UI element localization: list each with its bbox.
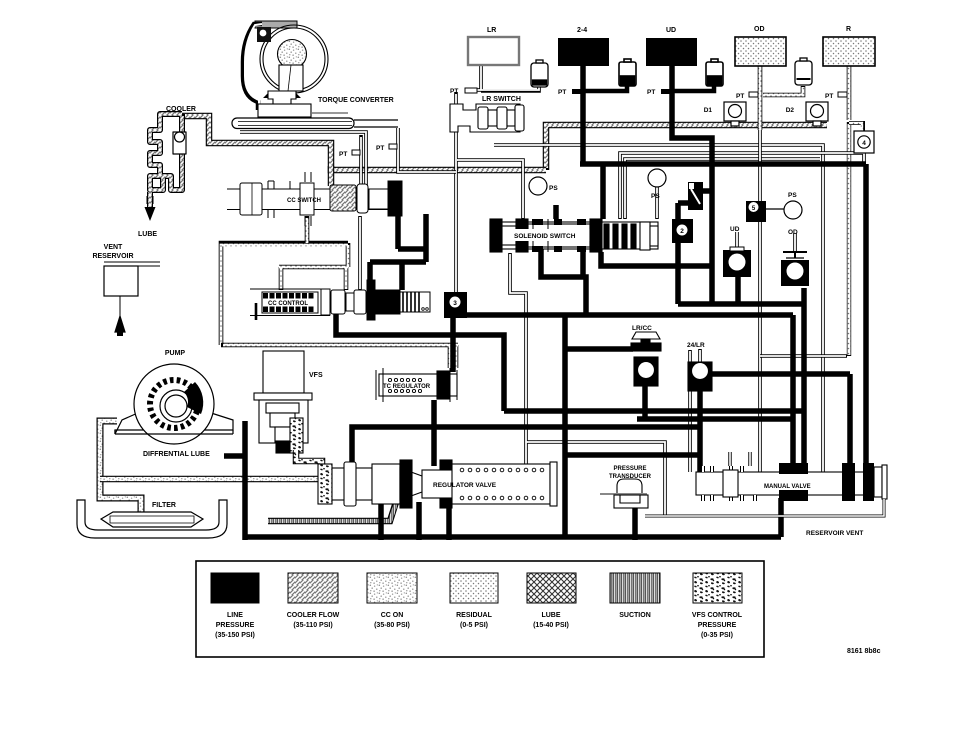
UD solenoid [646,38,697,66]
wire ball4 to x760 y356 [760,354,847,358]
R solenoid [823,37,875,66]
svg-text:TORQUE CONVERTER: TORQUE CONVERTER [318,97,394,104]
wire bottom main y537 [245,498,781,537]
svg-text:PRESSURE: PRESSURE [698,622,737,629]
legend lube [527,573,576,603]
wire suction filter to pump [100,421,141,513]
legend residual [450,573,498,603]
accumulator A1 [531,60,548,87]
wire mid line y315 [462,312,793,318]
svg-text:PRESSURE: PRESSURE [216,622,255,629]
wire transducer link [510,253,665,516]
svg-text:LR: LR [487,27,496,34]
svg-text:RESERVOIR: RESERVOIR [92,253,133,260]
svg-text:LUBE: LUBE [541,612,560,619]
svg-text:D1: D1 [704,107,713,114]
svg-text:PRESSURE: PRESSURE [613,466,646,472]
torque converter feed tube [232,118,354,129]
wire suction to regulator valve y521 [268,502,396,521]
wire tc pt drop x361 [359,135,363,186]
cooler [145,114,187,221]
svg-text:VFS CONTROL: VFS CONTROL [692,612,743,619]
solenoid switch valve [490,219,658,252]
OD solenoid [735,37,786,66]
wire lube dotted loop left [221,216,348,345]
VFS valve [254,351,322,474]
pump [115,364,233,444]
svg-text:CC CONTROL: CC CONTROL [268,301,308,307]
svg-text:RESERVOIR VENT: RESERVOIR VENT [806,530,863,537]
svg-text:PT: PT [450,88,458,95]
LRCC accumulator [631,332,661,386]
legend box [196,561,764,657]
svg-text:OD: OD [754,26,765,33]
2-4 solenoid [558,38,609,66]
svg-text:PT: PT [376,145,384,152]
svg-text:PS: PS [788,192,797,199]
accumulator A2 [619,59,636,86]
flag valve 1 [688,182,703,210]
wire residual y160 to PS1 and solenoid switch [457,160,523,219]
wire ball2 down [675,242,681,304]
svg-text:OD: OD [788,229,798,236]
LR solenoid [468,37,519,65]
wire solenoid switch bottom out [541,205,586,315]
svg-text:(0-5 PSI): (0-5 PSI) [460,622,488,629]
svg-text:R: R [846,26,851,33]
svg-text:UD: UD [730,226,740,233]
wire LR switch down to ball5 [454,92,458,294]
svg-text:VFS: VFS [309,372,323,379]
ball check 4 [849,123,874,153]
svg-text:2-4: 2-4 [577,27,587,34]
UD accumulator [723,247,751,277]
svg-text:LR SWITCH: LR SWITCH [482,96,521,103]
wire x793 down to manual valve [790,315,796,466]
wire x565 down [562,313,568,537]
wire TC regulator to regulator valve [434,400,437,466]
wire regulator valve bottom ports [381,502,449,540]
wire torque converter feed lower double y132 [240,132,366,186]
svg-text:UD: UD [666,27,676,34]
wire ball2 elbow [678,203,692,219]
svg-text:PT: PT [736,93,744,100]
wire transducer bottom [632,505,638,540]
wire manual valve gray x690 [688,350,692,472]
svg-text:LINE: LINE [227,612,243,619]
wire UD accumulator stem [735,232,739,252]
wire accumulator A2 elbow [583,84,627,91]
PS switch 2 [648,169,666,187]
svg-text:PS: PS [549,185,558,192]
CC switch valve [227,172,402,226]
wire 4-ball down textured [847,122,851,356]
svg-text:3: 3 [453,300,457,307]
wire residual long y143 [494,145,823,472]
legend line pressure [211,573,259,603]
svg-text:(35-110 PSI): (35-110 PSI) [293,622,332,629]
svg-text:PT: PT [339,151,347,158]
wire flag valve link [700,188,712,194]
wire y304 to OD accumulator drop [678,301,804,307]
wire PS2 stub [655,186,659,219]
wire pump right drop [242,421,248,540]
svg-text:COOLER FLOW: COOLER FLOW [287,612,340,619]
svg-text:DIFFRENTIAL LUBE: DIFFRENTIAL LUBE [143,451,210,458]
wire residual y172 [398,128,456,172]
svg-text:COOLER: COOLER [166,106,196,113]
svg-text:(35-150 PSI): (35-150 PSI) [215,632,255,639]
wire cc switch to cc control double x360 [358,216,362,290]
wire y455 to manual valve area [565,452,699,458]
wire LRCC feed y349 [565,346,633,352]
wire OD solenoid drop textured [758,66,763,130]
svg-text:CC SWITCH: CC SWITCH [287,198,321,204]
wire y411 long [504,408,804,414]
accumulator A3 [706,59,723,86]
wire y419 LRCC to x793 [637,416,793,422]
LR switch [450,104,524,132]
ball check 5 [746,201,784,222]
svg-text:REGULATOR VALVE: REGULATOR VALVE [433,482,497,489]
vent reservoir [104,262,160,336]
wire main right vertical x866 [863,164,869,466]
OD accumulator [781,252,809,286]
wire residual y155 right run [620,153,864,219]
wire UD solenoid drop [672,66,712,304]
wire accumulator A3 elbow [672,84,714,91]
wire OD down residual [758,130,762,472]
wire cooler return y170 [331,166,546,170]
wire lube long horizontal y479 [100,476,318,483]
svg-text:SUCTION: SUCTION [619,612,651,619]
svg-text:SOLENOID SWITCH: SOLENOID SWITCH [514,233,576,240]
wire 24LR stem [698,349,702,362]
wire OD accumulator stem [793,233,797,252]
wire lube line y345 to tc regulator channel [221,345,458,368]
wire x850 down to manual valve [847,374,853,466]
svg-text:4: 4 [862,140,866,147]
svg-text:(0-35 PSI): (0-35 PSI) [701,632,733,639]
svg-text:D2: D2 [786,107,795,114]
svg-text:LR/CC: LR/CC [632,325,652,332]
svg-text:8161 8b8c: 8161 8b8c [847,648,881,655]
svg-text:TRANSDUCER: TRANSDUCER [609,474,652,480]
accumulator A4 [795,58,812,85]
wire 24LR drop [697,390,703,472]
svg-text:LUBE: LUBE [138,231,157,238]
24LR accumulator [688,362,712,391]
wire y427 to manual valve [437,424,699,430]
wire LRCC drop [642,385,648,421]
wire cc control feed elbows [398,214,426,249]
svg-text:TC REGULATOR: TC REGULATOR [383,384,431,390]
wire UD accum down [735,276,741,304]
legend cc on [367,573,417,603]
wire 24LR right y374 [710,371,850,377]
svg-text:PT: PT [825,93,833,100]
filter [77,500,227,538]
PS switch 1 [529,177,547,195]
wire ball5 down [450,318,456,372]
svg-text:VENT: VENT [104,244,123,251]
wire R solenoid drop textured [847,66,852,120]
pressure transducer [600,479,648,508]
ball check 3 [444,292,467,318]
wire y427 bracket [352,427,434,466]
svg-text:CC ON: CC ON [381,612,404,619]
regulator valve [318,460,557,508]
wire LR solenoid drop [467,65,539,91]
wire cooler to cooler coil y143 [182,116,331,186]
svg-text:FILTER: FILTER [152,502,176,509]
wire solenoid switch right bottom out y266 [601,252,712,266]
D2 check valve [806,102,828,126]
svg-text:RESIDUAL: RESIDUAL [456,612,493,619]
legend vfs [693,573,742,603]
manual valve [696,452,887,501]
wire 2-4 solenoid drop [580,66,586,164]
svg-text:2: 2 [680,228,684,235]
wire main line y164 [580,161,866,167]
wire diff lube stub [224,453,245,459]
svg-text:MANUAL VALVE: MANUAL VALVE [764,484,811,490]
legend cooler flow [288,573,338,603]
legend suction [610,573,660,603]
PS switch 3 [784,201,802,219]
CC control valve [250,280,430,320]
svg-text:PS: PS [651,193,660,200]
ball check 2 [672,219,693,243]
wire OD accum down to manual valve [801,288,807,466]
svg-text:(15-40 PSI): (15-40 PSI) [533,622,569,629]
reservoir vent line [645,499,884,516]
svg-text:24/LR: 24/LR [687,342,705,349]
svg-text:PT: PT [558,89,566,96]
wire cooler supply horizontal y125 [546,125,827,170]
torque converter [232,21,398,129]
svg-text:PUMP: PUMP [165,350,186,357]
wire cc control bottom to x504 [336,314,504,411]
svg-text:PT: PT [647,89,655,96]
wire OD PT branch [763,86,803,95]
D1 check valve [724,102,746,126]
wire x603 into solenoid switch [600,164,606,219]
svg-text:(35-80 PSI): (35-80 PSI) [374,622,410,629]
TC regulator valve [376,368,457,402]
